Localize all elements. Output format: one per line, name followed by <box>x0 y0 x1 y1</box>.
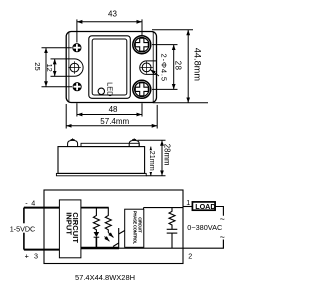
LED diode of optocoupler <box>94 232 100 237</box>
wire from LOAD to right <box>215 207 223 216</box>
svg-text:2: 2 <box>188 251 192 260</box>
svg-text:12: 12 <box>45 64 54 72</box>
light arrows to phototriac <box>108 233 113 238</box>
dimension 48 <box>77 103 142 116</box>
dimension 57.4mm <box>66 104 157 129</box>
dimension 21mm <box>150 147 152 176</box>
left mounting boss <box>66 59 83 76</box>
svg-text:21mm: 21mm <box>148 151 157 171</box>
internal top rail (right) <box>144 207 184 209</box>
svg-text:48: 48 <box>109 105 118 114</box>
left inner wall line <box>68 32 70 101</box>
svg-text:3: 3 <box>34 251 38 260</box>
right mounting boss <box>140 61 157 75</box>
svg-text:57.4mm: 57.4mm <box>100 117 129 126</box>
svg-text:0~380VAC: 0~380VAC <box>187 223 222 232</box>
left mounting hole crosshair <box>68 61 81 74</box>
cover outer rect <box>89 36 131 99</box>
LED indicator circle <box>98 88 104 94</box>
wire terminal 3 <box>24 249 60 251</box>
right inner wall line <box>152 32 154 101</box>
phototriac <box>113 228 125 248</box>
svg-text:LED: LED <box>106 82 115 96</box>
riser from phase box to top rail <box>143 208 145 210</box>
svg-text:28mm: 28mm <box>163 144 172 166</box>
left screw dome <box>68 140 78 146</box>
dimension 44.8mm <box>152 30 208 103</box>
wire to LOAD <box>183 206 194 208</box>
svg-text:~: ~ <box>220 232 225 242</box>
screw bottom-right <box>133 80 151 98</box>
input source bracket <box>23 208 25 250</box>
SSR outline box <box>44 190 183 264</box>
svg-text:2-Φ4.5: 2-Φ4.5 <box>160 54 169 82</box>
wire bottom right <box>183 240 223 249</box>
LOAD box <box>192 202 215 210</box>
svg-text:25: 25 <box>33 62 42 70</box>
internal bottom rail (right) <box>119 247 183 249</box>
resistor R1 (vertical zigzag) <box>93 208 99 232</box>
dimension 25 <box>42 48 73 87</box>
svg-text:4: 4 <box>31 198 35 207</box>
svg-text:44.8mm: 44.8mm <box>193 48 203 82</box>
screw bottom-left <box>73 82 82 91</box>
dimension 43 <box>77 19 142 42</box>
base plate <box>56 173 146 175</box>
svg-text:57.4X44.8WX28H: 57.4X44.8WX28H <box>75 273 135 282</box>
resistor R2 (vertical zigzag) <box>105 208 111 233</box>
INPUT CIRCUIT box <box>59 200 81 258</box>
svg-text:1-5VDC: 1-5VDC <box>10 224 36 233</box>
internal top rail (left) <box>81 207 109 209</box>
screw top-right <box>133 36 151 54</box>
svg-text:28: 28 <box>174 61 183 71</box>
svg-text:CIRCUIT: CIRCUIT <box>138 217 143 233</box>
svg-text:+: + <box>25 251 29 260</box>
snubber resistor <box>169 208 175 230</box>
PHASE CONTROL CIRCUIT box <box>125 209 144 247</box>
raised cover strip <box>81 143 139 146</box>
dimension 12 <box>51 59 67 76</box>
dimension 28mm <box>138 140 166 176</box>
screw top-left <box>72 43 81 52</box>
internal bottom rail <box>81 247 119 249</box>
svg-text:CIRCUIT: CIRCUIT <box>71 212 80 243</box>
svg-text:1: 1 <box>186 198 190 207</box>
label 1-5VDC <box>9 223 38 232</box>
svg-text:PHASE CONTROL: PHASE CONTROL <box>132 211 137 245</box>
svg-text:LOAD: LOAD <box>195 202 215 211</box>
svg-text:43: 43 <box>108 9 117 18</box>
right screw dome <box>129 140 139 146</box>
snubber capacitor <box>167 229 178 248</box>
cover inner rect <box>92 39 127 95</box>
body <box>58 147 145 174</box>
relay body outline <box>66 32 156 103</box>
right mounting hole crosshair <box>140 61 153 74</box>
wire terminal 4 <box>24 207 60 209</box>
dimension 28 (right holes) <box>152 45 178 90</box>
